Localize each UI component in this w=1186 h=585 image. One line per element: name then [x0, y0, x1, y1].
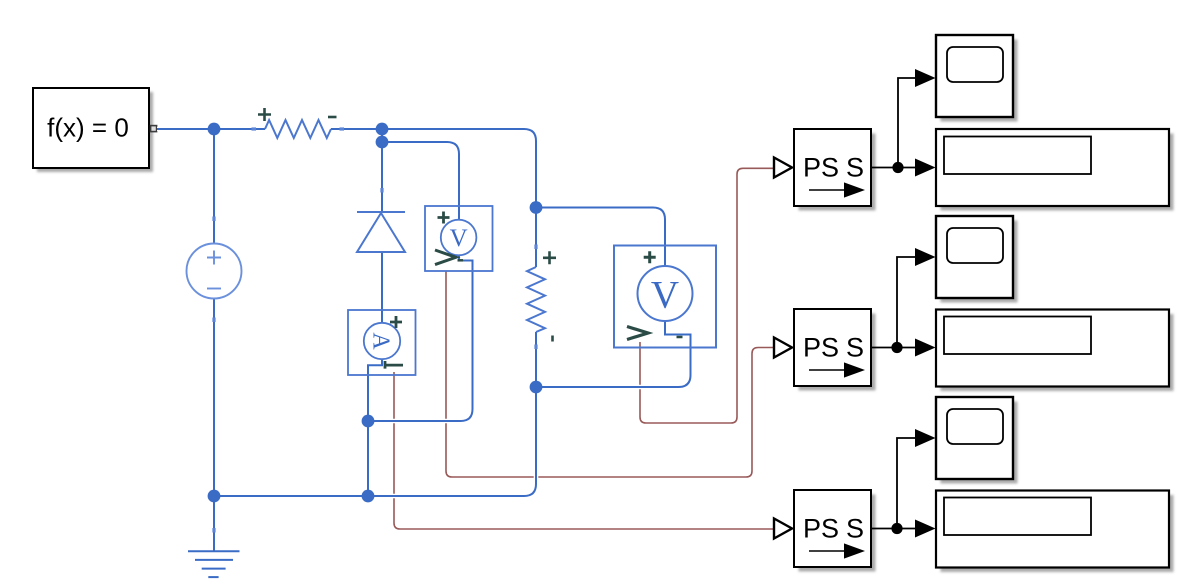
node B junction dot — [376, 136, 389, 149]
resistor R2 — [527, 267, 545, 332]
wire voltmeter V2 minus to node E — [368, 255, 473, 421]
svg-text:S: S — [846, 153, 864, 183]
solver block f(x)=0 — [33, 88, 157, 172]
resistor R1 — [265, 120, 331, 138]
voltage source V1 — [187, 244, 242, 299]
wire node A to node B short vertical — [381, 129, 383, 142]
junction dot row 3 — [891, 523, 902, 534]
display 1 — [936, 129, 1174, 211]
wire white casing — [157, 129, 691, 551]
scope 3 — [936, 397, 1018, 484]
ground rail junction dot left — [208, 490, 221, 503]
PS wire voltmeter V3 to converter 1 — [640, 168, 773, 423]
PS-Simulink converter 3 — [774, 490, 876, 572]
arrowhead display 1 — [915, 159, 936, 177]
label - resistor R2 — [551, 336, 554, 342]
wire node C to voltmeter V3 plus — [536, 208, 665, 267]
node D junction dot — [530, 381, 543, 394]
voltage sensor V3 — [614, 246, 716, 348]
wire f(x) output to node A — [157, 128, 265, 130]
node A2 junction dot — [376, 123, 389, 136]
signal wire converter 2 to scope 2 and display 2 — [871, 257, 917, 348]
PS-Simulink converter 2 — [774, 309, 876, 391]
svg-text:S: S — [846, 514, 864, 544]
wire ground rail to resistor R2 bottom — [214, 387, 536, 496]
arrowhead display 2 — [915, 339, 936, 357]
display 2 — [936, 310, 1174, 392]
wire resistor R2 leads — [535, 208, 537, 388]
arrowhead display 3 — [915, 520, 936, 538]
svg-text:A: A — [368, 332, 394, 350]
signal wire converter 1 to scope 1 and display 1 — [871, 78, 917, 168]
PS-Simulink converter 1 — [774, 129, 876, 211]
junction dot row 2 — [891, 342, 902, 353]
label - resistor R1 — [328, 116, 337, 119]
display 3 — [936, 491, 1174, 573]
label + resistor R1 — [258, 108, 271, 121]
wire voltage source bottom to ground rail — [213, 299, 215, 552]
node C junction dot — [530, 201, 543, 214]
svg-text:V: V — [450, 225, 468, 252]
wire node A to resistor R2 top — [382, 129, 536, 208]
PS wire voltmeter V2 to converter 2 — [446, 271, 773, 477]
current sensor A1 — [348, 310, 416, 375]
arrowhead scope 2 — [915, 248, 936, 266]
wire node A horizontal after resistor — [331, 128, 382, 130]
wire ammeter A1 minus to node E and ground rail — [368, 359, 382, 496]
ground — [188, 551, 240, 577]
arrowhead scope 1 — [915, 69, 936, 87]
wire node B down to diode D1 — [381, 142, 383, 212]
svg-text:f(x) = 0: f(x) = 0 — [47, 113, 129, 143]
label + resistor R2 — [543, 251, 556, 264]
wire port stubs — [214, 129, 536, 533]
scope 1 — [936, 35, 1018, 122]
PS wire ammeter A1 to converter 3 — [394, 372, 773, 529]
signal wire converter 3 to scope 3 and display 3 — [871, 438, 917, 529]
node E junction dot — [362, 415, 375, 428]
junction dot row 1 — [892, 162, 903, 173]
svg-text:PS: PS — [803, 514, 839, 544]
svg-text:V: V — [651, 274, 679, 317]
scope 2 — [936, 216, 1018, 303]
svg-text:PS: PS — [803, 333, 839, 363]
node A junction dot — [208, 123, 221, 136]
wire node A down to voltage source — [213, 129, 215, 244]
svg-text:S: S — [846, 333, 864, 363]
wire diode D1 to ammeter A1 — [381, 253, 383, 324]
voltage sensor V2 — [425, 206, 493, 271]
wire voltmeter V3 minus to node D — [536, 321, 691, 388]
arrowhead scope 3 — [915, 429, 936, 447]
ground rail junction dot mid — [362, 490, 375, 503]
diode D1 — [357, 212, 405, 252]
svg-text:PS: PS — [803, 153, 839, 183]
wire node B to voltmeter V2 plus — [382, 142, 459, 221]
